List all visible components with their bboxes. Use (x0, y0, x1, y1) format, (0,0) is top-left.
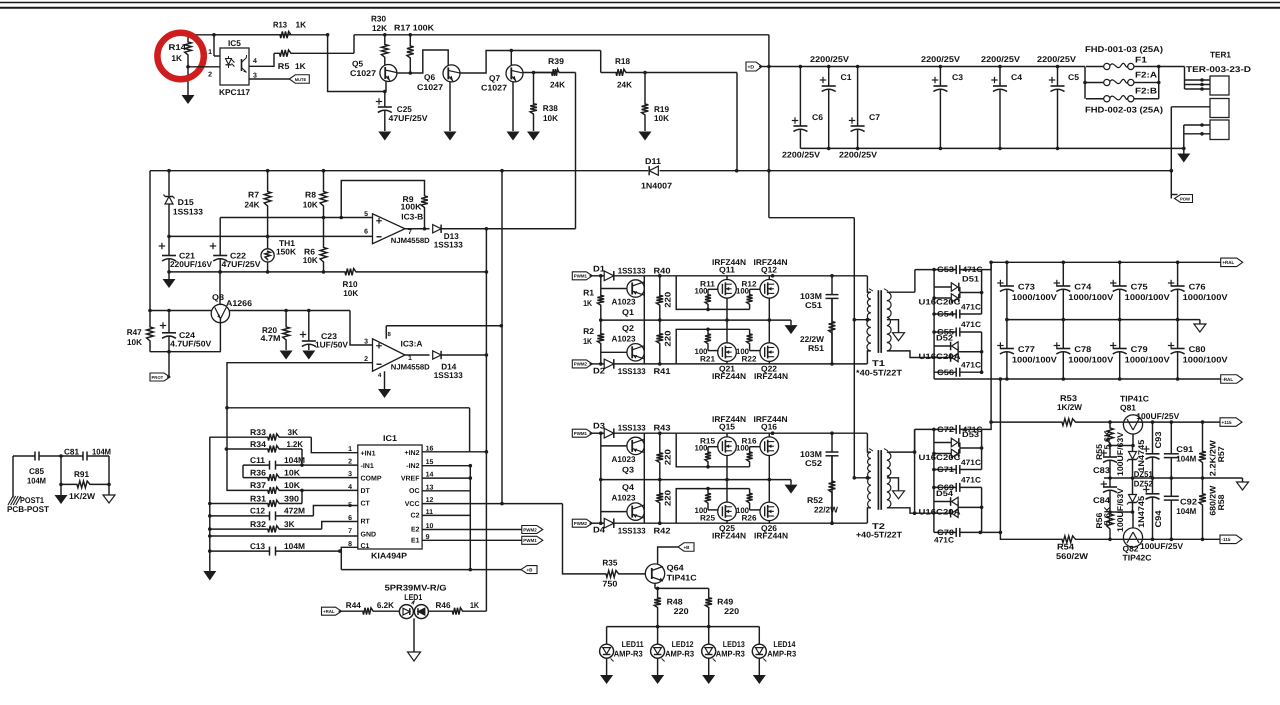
svg-text:C11: C11 (250, 455, 265, 465)
thermistor TH1 150K (267, 236, 269, 249)
wire LED1 center down (413, 618, 415, 652)
resistor R20 4.7M (283, 311, 290, 351)
ground arrow on mid row (790, 480, 792, 485)
feedback loop wire top (341, 181, 424, 218)
wire to TER1 connector 1 (1184, 67, 1186, 90)
gate wires lower (708, 509, 719, 511)
node C11/R34 junction (300, 463, 304, 467)
svg-text:KPC117: KPC117 (219, 87, 250, 97)
svg-text:C94: C94 (1153, 510, 1163, 527)
node top R40 column (658, 274, 662, 278)
op-amp IC3-A NJM4558D (373, 339, 406, 372)
tag +B at Q64 (678, 543, 694, 552)
svg-text:100UF/25V: 100UF/25V (1140, 541, 1183, 551)
svg-text:104M: 104M (92, 447, 111, 457)
+RAL rail (991, 261, 1221, 263)
ground below R20 (280, 351, 293, 360)
resistor R1 1K (597, 276, 604, 320)
wire left to POST1 (12, 456, 14, 498)
svg-text:4.7UF/50V: 4.7UF/50V (170, 339, 211, 349)
resistor R39 24K (534, 69, 576, 76)
svg-text:R22: R22 (742, 354, 758, 363)
svg-text:R42: R42 (654, 525, 671, 535)
wire op-amp pin5 row (220, 217, 372, 219)
wire IC5 pin2 (188, 66, 220, 68)
node rail-R8 (322, 169, 326, 173)
pin12 VCC row (422, 503, 562, 505)
resistor R33 3K row (209, 434, 311, 441)
svg-text:A1023: A1023 (612, 333, 636, 343)
svg-text:PWM1: PWM1 (523, 538, 537, 543)
wire top row to drains (676, 432, 867, 434)
ground below C23 (302, 351, 315, 360)
node C84 bottom (1108, 510, 1112, 514)
capacitor C4 2200/25V (998, 65, 1002, 69)
wire IC3-B output (405, 228, 430, 230)
node C22/Q8 base (218, 270, 222, 274)
wire R31 up to DT row (301, 490, 303, 503)
wire Q8 row (150, 310, 211, 312)
svg-text:472M: 472M (284, 506, 305, 516)
svg-text:24K: 24K (617, 80, 632, 90)
connector TER1 box1 (1210, 76, 1229, 95)
resistor R12 100 (747, 289, 753, 309)
transformer T2 primary connections (867, 433, 870, 452)
LED LED14 AMP-R3 (758, 627, 760, 645)
tag PWM1 block B (572, 429, 592, 437)
svg-text:NJM4558D: NJM4558D (391, 363, 431, 372)
node R19 top (643, 71, 647, 75)
svg-text:D11: D11 (645, 156, 661, 166)
open ground right mid rail (1242, 478, 1244, 482)
svg-text:D3: D3 (593, 421, 605, 431)
capacitor C13 104M row (210, 550, 270, 552)
resistor R25 100 (705, 489, 711, 510)
svg-text:D54: D54 (936, 489, 954, 498)
wire fuse left bus (1084, 67, 1086, 99)
svg-text:1000/100V: 1000/100V (1012, 292, 1058, 302)
svg-text:4: 4 (253, 58, 257, 65)
svg-text:471C: 471C (961, 458, 981, 467)
node R38 top (532, 71, 536, 75)
svg-text:-IN1: -IN1 (361, 463, 374, 470)
svg-text:C53: C53 (937, 265, 955, 274)
node C70 row junctions (979, 531, 983, 535)
tag -RAL (1221, 375, 1243, 384)
resistor R13 (214, 31, 291, 38)
dual diode D52 lower pair common anode (934, 345, 950, 347)
transistor Q2 A1023 (601, 351, 627, 353)
red highlight circle annotation (157, 33, 203, 79)
node Q8 row left (148, 309, 152, 313)
node C51 top (830, 274, 834, 278)
resistor R26 100 (747, 489, 753, 510)
node C51 bottom (830, 521, 834, 525)
LED LED12 AMP-R3 (657, 627, 659, 645)
capacitor C76 1000/100V (1176, 261, 1180, 265)
svg-text:Q4: Q4 (622, 482, 634, 492)
svg-text:10K: 10K (284, 480, 300, 490)
gate branch lower (676, 329, 749, 364)
LED LED1 5PR39MV-R/G dual (399, 605, 413, 619)
svg-text:1K: 1K (583, 298, 592, 308)
svg-text:C85: C85 (29, 466, 44, 476)
capacitor C94 100UF/25V (1152, 478, 1154, 494)
mid rail right block (1104, 477, 1243, 479)
svg-text:PWM2: PWM2 (523, 527, 537, 532)
wire IC5 pin3 to MUTE (249, 78, 293, 80)
svg-text:IC5: IC5 (228, 38, 241, 48)
node Q7 base (510, 49, 514, 53)
svg-text:1K: 1K (171, 53, 182, 63)
wire R39 right down to comparator output line (575, 73, 577, 229)
svg-text:R43: R43 (654, 423, 671, 433)
capacitor C6 2200/25V (799, 65, 803, 69)
mosfet Q25 IRFZ44N (718, 502, 737, 521)
svg-text:R47: R47 (127, 327, 142, 337)
vertical bus x769 (768, 35, 770, 218)
svg-text:C4: C4 (1011, 72, 1022, 82)
rectifier left bus (933, 429, 935, 532)
svg-text:+40-5T/22T: +40-5T/22T (856, 530, 902, 540)
snubber C52 103M / R52 22/2W (831, 433, 833, 452)
svg-text:IRFZ44N: IRFZ44N (754, 371, 788, 381)
svg-text:1SS133: 1SS133 (618, 525, 646, 535)
resistor R36 10K row (243, 474, 358, 481)
capacitor C85 104M (13, 455, 35, 457)
svg-text:R48: R48 (667, 596, 683, 606)
svg-text:TER-003-23-D: TER-003-23-D (1186, 64, 1251, 74)
svg-text:FHD-001-03 (25A): FHD-001-03 (25A) (1085, 44, 1163, 54)
svg-text:D1: D1 (593, 263, 605, 273)
svg-text:+B: +B (527, 567, 534, 572)
resistor R91 1K/2W (61, 481, 109, 488)
wire IC5 pin1 (213, 35, 215, 56)
resistor R48 220 (654, 588, 661, 626)
resistor R5 (274, 50, 354, 57)
resistor R15 100 (705, 447, 711, 467)
gate branch upper (676, 276, 749, 310)
resistor R9 100K (421, 196, 428, 229)
gate branch lower (676, 489, 749, 524)
svg-text:PWM1: PWM1 (574, 274, 588, 279)
svg-text:F1: F1 (1135, 55, 1147, 65)
resistor R46 1K (428, 608, 486, 615)
pin16 +IN2 row (422, 451, 486, 453)
wire +B to Q64 collector (658, 547, 678, 564)
svg-text:2200/25V: 2200/25V (782, 149, 820, 159)
vertical -RAL to -115 rail (999, 379, 1001, 532)
resistor R14 (185, 35, 192, 67)
resistor R42 220 column (656, 480, 663, 524)
wire Q64 emitter (654, 583, 656, 588)
svg-text:C78: C78 (1074, 344, 1091, 354)
svg-text:C83: C83 (1093, 465, 1110, 475)
svg-text:R46: R46 (436, 600, 451, 610)
svg-text:DT: DT (361, 488, 371, 495)
svg-text:560/2W: 560/2W (1056, 551, 1088, 561)
svg-text:6.2K: 6.2K (377, 600, 394, 610)
capacitor C79 1000/100V (1118, 318, 1122, 322)
snubber cap row C72 471C (915, 428, 957, 430)
wire +D tag to rail (759, 66, 769, 68)
wire box2 to PDW bus (1171, 106, 1210, 108)
svg-text:3K: 3K (284, 519, 295, 529)
svg-text:R49: R49 (717, 596, 733, 606)
svg-text:1000/100V: 1000/100V (1012, 354, 1058, 364)
transformer T1 center tap (854, 319, 871, 321)
node C24 bottom - PROT (167, 350, 171, 354)
svg-text:R40: R40 (654, 265, 671, 275)
transformer T1 core (877, 290, 879, 353)
svg-text:Q8: Q8 (212, 292, 224, 302)
svg-text:47UF/25V: 47UF/25V (222, 259, 261, 269)
svg-text:C56: C56 (937, 368, 955, 377)
svg-text:1SS133: 1SS133 (434, 240, 463, 250)
ground big below left bus (203, 571, 216, 581)
svg-text:Q15: Q15 (719, 422, 735, 432)
node R17 bottom - Q5 collector (409, 71, 413, 75)
svg-text:1SS133: 1SS133 (618, 265, 646, 275)
svg-text:C51: C51 (805, 300, 822, 310)
svg-text:+RAL: +RAL (1222, 260, 1234, 265)
capacitor C84 100UF/63V (1109, 478, 1111, 487)
tag PWM1 block A (572, 272, 592, 280)
bottom row Q8 emitter (150, 351, 221, 353)
svg-text:C80: C80 (1189, 344, 1206, 354)
svg-text:3K: 3K (288, 427, 299, 437)
node Q5 emitter / C25 (383, 90, 387, 94)
node rail-R17 (409, 33, 413, 37)
svg-text:D53: D53 (962, 430, 980, 439)
svg-text:1000/100V: 1000/100V (1183, 354, 1229, 364)
left bus x150 from rail (149, 171, 151, 311)
svg-text:RT: RT (361, 519, 371, 526)
vertical x470 pins15/14 to +B (469, 466, 471, 570)
capacitor C22 47UF/25V (219, 251, 221, 256)
node left bus R32 (208, 527, 212, 531)
wire R33 to pin1 (311, 437, 358, 453)
node bottom rail - D13 vertical (485, 270, 489, 274)
node C21 bottom rail (167, 270, 171, 274)
wire raw rail y66 to fuses (769, 66, 1085, 68)
resistor R2 1K (597, 320, 604, 364)
ground filled below R91 left (60, 484, 62, 495)
svg-text:AMP-R3: AMP-R3 (665, 649, 694, 659)
svg-text:R25: R25 (700, 514, 716, 523)
transformer T1 primary connections (867, 276, 870, 292)
svg-text:C54: C54 (937, 310, 955, 319)
svg-text:6: 6 (364, 229, 368, 236)
svg-text:A1266: A1266 (226, 298, 252, 308)
transistor Q7 C1027 (506, 65, 523, 82)
wire C22 top from pin5 row (219, 218, 221, 252)
svg-text:COMP: COMP (361, 476, 382, 483)
wire C81 right down (108, 456, 110, 484)
svg-text:PCB-POST: PCB-POST (7, 504, 49, 514)
wire C12 to CT pin (313, 506, 357, 516)
svg-text:Q12: Q12 (761, 264, 777, 274)
+B row under IC1 (341, 569, 523, 571)
svg-text:2200/25V: 2200/25V (921, 54, 961, 64)
svg-text:7: 7 (408, 229, 412, 236)
svg-text:OC: OC (409, 488, 420, 495)
wire R32 to RT pin (322, 522, 358, 530)
vertical transformer center-tap feed x854 (853, 218, 855, 478)
svg-text:24K: 24K (550, 80, 565, 90)
svg-text:PWM2: PWM2 (574, 362, 588, 367)
resistor R40 220 column (656, 276, 663, 320)
svg-text:FHD-002-03 (25A): FHD-002-03 (25A) (1085, 105, 1163, 115)
wire main rail y171 (150, 170, 648, 172)
svg-text:R1: R1 (583, 287, 594, 297)
node C13 right - pin8 vertical (338, 549, 342, 553)
svg-text:C5: C5 (1068, 72, 1079, 82)
pin15 -IN2 row (422, 465, 470, 467)
node R9 bottom on output (423, 227, 427, 231)
svg-text:C91: C91 (1176, 444, 1193, 454)
svg-text:+D: +D (748, 64, 755, 70)
ground open below LED1 (408, 652, 421, 661)
dual diode D51 upper pair common cathode (934, 286, 951, 288)
wire Q7 emitter to ground (512, 82, 514, 131)
svg-text:1SS133: 1SS133 (618, 423, 646, 433)
node C51 top (830, 431, 834, 435)
svg-text:-IN2: -IN2 (406, 463, 419, 470)
resistor R55 5.6K column (1107, 422, 1114, 445)
capacitor C75 1000/100V (1118, 261, 1122, 265)
capacitor C92 104M (1170, 478, 1172, 496)
svg-text:A1023: A1023 (612, 454, 636, 464)
wire top row (590, 432, 605, 434)
resistor R19 10K (642, 73, 649, 132)
transformer T2 center tap (854, 477, 871, 479)
rectifier right bus lower segment (981, 332, 983, 372)
ground below R14 (182, 95, 195, 104)
pin8 stub IC3-A (385, 326, 387, 339)
svg-text:R34: R34 (250, 439, 266, 449)
transformer T2 secondary bottom wire (887, 508, 934, 513)
svg-text:D4: D4 (593, 525, 605, 535)
wire R18 row (600, 51, 602, 73)
resistor R47 10K (147, 311, 154, 352)
gate wires upper (708, 288, 719, 290)
diode D11 1N4007 (649, 166, 658, 175)
resistor R31 390 row (210, 500, 302, 507)
resistor R56 5.6K column (1107, 512, 1114, 539)
svg-text:IRFZ44N: IRFZ44N (754, 531, 788, 541)
capacitor C80 1000/100V (1176, 318, 1180, 322)
node top D/R (599, 274, 603, 278)
svg-text:10K: 10K (343, 288, 358, 298)
svg-text:-115: -115 (1222, 537, 1231, 542)
snubber cap row C53 471C (915, 269, 956, 271)
capacitor C5 2200/25V (1056, 65, 1060, 69)
svg-text:R8: R8 (305, 190, 316, 200)
svg-text:471C: 471C (934, 535, 954, 544)
transistor Q81 TIP41C on +115 rail (1108, 420, 1112, 424)
diode D3 1SS133 (604, 428, 614, 438)
svg-text:LED14: LED14 (773, 639, 795, 649)
svg-text:104M: 104M (284, 541, 305, 551)
resistor R6 10K (320, 218, 327, 272)
node R34 left (225, 447, 229, 451)
svg-text:R54: R54 (1057, 542, 1074, 552)
svg-text:IC3:A: IC3:A (401, 339, 423, 349)
svg-text:C81: C81 (64, 447, 79, 457)
svg-text:F2:A: F2:A (1135, 70, 1157, 80)
wire Q7 collector row (523, 72, 552, 74)
svg-text:7: 7 (348, 528, 352, 535)
svg-text:PWM1: PWM1 (574, 431, 588, 436)
node R14-IC5 pin2 (186, 65, 190, 69)
mosfet Q11 IRFZ44N (718, 280, 737, 299)
dual diode D53 upper pair common cathode (934, 442, 951, 444)
svg-text:C13: C13 (250, 541, 265, 551)
svg-text:C6: C6 (812, 112, 823, 122)
svg-text:3: 3 (364, 338, 368, 345)
+115 rail with R53 (989, 420, 993, 424)
svg-text:100: 100 (695, 444, 709, 453)
svg-text:C1027: C1027 (481, 83, 507, 93)
svg-text:R2: R2 (583, 326, 594, 336)
svg-text:AMP-R3: AMP-R3 (614, 649, 643, 659)
LED row wire (607, 626, 760, 628)
svg-text:U16C20A: U16C20A (919, 508, 961, 517)
wire R34 to -IN1 row (301, 449, 303, 465)
bottom rail y272 with R10 (169, 269, 486, 276)
wire Q8 base (219, 272, 221, 304)
zener D15 1SS133 (168, 171, 170, 196)
svg-text:POW: POW (1180, 196, 1190, 201)
svg-text:R32: R32 (250, 519, 266, 529)
svg-text:4.7M: 4.7M (261, 333, 281, 343)
capacitor C3 2200/25V (939, 65, 943, 69)
VCC feed down to R35 (563, 504, 601, 574)
tag MUTE (289, 75, 309, 84)
svg-text:10K: 10K (284, 467, 300, 477)
resistor R16 100 (747, 447, 753, 467)
svg-text:1K/2W: 1K/2W (1057, 402, 1082, 412)
pin4 stub and ground IC3-A (384, 371, 386, 389)
resistor R41 220 column (656, 320, 663, 364)
svg-text:220: 220 (663, 330, 673, 346)
wire IC5 pin4 to R5 (249, 53, 274, 66)
wire D14 to vertical (441, 354, 486, 356)
resistor R32 3K row (210, 526, 322, 533)
pin14 VREF row (422, 477, 470, 479)
svg-text:C52: C52 (805, 458, 822, 468)
svg-text:C1: C1 (841, 72, 852, 82)
node left bus GND (208, 534, 212, 538)
svg-text:2200/25V: 2200/25V (1037, 54, 1077, 64)
fuse F2:B (1086, 98, 1104, 100)
svg-text:Q3: Q3 (622, 464, 634, 474)
svg-text:D51: D51 (962, 275, 980, 284)
svg-text:LED13: LED13 (723, 639, 745, 649)
svg-text:220: 220 (674, 606, 689, 616)
pin9 E1 row to PWM1 (422, 539, 522, 541)
svg-text:VREF: VREF (401, 476, 420, 483)
svg-text:Q2: Q2 (622, 323, 634, 333)
tag +D raw supply (746, 62, 762, 71)
-RAL rail (934, 378, 1221, 380)
svg-text:1K: 1K (295, 61, 306, 71)
svg-text:C74: C74 (1074, 282, 1091, 292)
svg-text:LED1: LED1 (404, 592, 422, 602)
transformer T1 primary winding (867, 292, 870, 299)
svg-text:+115: +115 (1222, 420, 1233, 425)
